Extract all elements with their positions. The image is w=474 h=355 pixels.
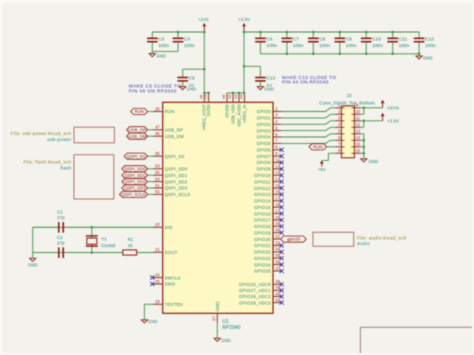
svg-text:GPIO5: GPIO5 — [257, 141, 272, 146]
svg-text:100n: 100n — [346, 43, 357, 49]
svg-text:QSPI_SD3: QSPI_SD3 — [165, 186, 188, 191]
svg-text:100n: 100n — [319, 43, 330, 49]
svg-text:GPIO1: GPIO1 — [257, 116, 272, 121]
svg-text:C1: C1 — [57, 210, 63, 215]
svg-text:SWD: SWD — [165, 282, 176, 287]
svg-text:27p: 27p — [57, 240, 65, 245]
svg-text:QSPI_SD2: QSPI_SD2 — [165, 179, 188, 184]
svg-text:QSPI_SD2: QSPI_SD2 — [124, 179, 146, 184]
svg-text:audio: audio — [357, 241, 370, 246]
svg-text:15: 15 — [356, 142, 361, 147]
svg-text:27: 27 — [275, 208, 280, 213]
svg-text:GND: GND — [264, 86, 274, 91]
svg-text:Y1: Y1 — [101, 236, 107, 241]
svg-text:GPIO2: GPIO2 — [257, 122, 272, 127]
svg-text:USB_VDD: USB_VDD — [230, 104, 235, 124]
svg-text:GND: GND — [156, 53, 166, 58]
svg-text:28: 28 — [275, 215, 280, 220]
svg-text:53: 53 — [155, 164, 160, 169]
svg-text:17: 17 — [275, 196, 280, 201]
svg-text:GPIO19: GPIO19 — [254, 230, 271, 235]
svg-text:13: 13 — [275, 170, 280, 175]
svg-text:GND: GND — [221, 338, 231, 343]
svg-text:21: 21 — [155, 247, 160, 252]
svg-text:23: 23 — [203, 94, 208, 99]
svg-text:GPIO27_ADC1: GPIO27_ADC1 — [239, 288, 271, 293]
svg-text:flash: flash — [60, 165, 71, 170]
svg-text:GPIO9: GPIO9 — [257, 167, 272, 172]
svg-text:GPIO8: GPIO8 — [257, 160, 272, 165]
svg-text:RP2040: RP2040 — [222, 325, 240, 331]
svg-text:C13: C13 — [266, 76, 275, 82]
svg-text:44: 44 — [239, 94, 244, 99]
svg-text:54: 54 — [155, 176, 160, 181]
svg-text:47: 47 — [155, 125, 160, 130]
svg-text:RUN: RUN — [165, 109, 175, 114]
svg-text:GPIO18: GPIO18 — [254, 224, 271, 229]
svg-text:GPIO17: GPIO17 — [254, 218, 271, 223]
svg-text:12: 12 — [275, 164, 280, 169]
svg-text:51: 51 — [155, 183, 160, 188]
svg-text:QSPI_SS: QSPI_SS — [127, 154, 146, 159]
svg-text:QSPI_SD1: QSPI_SD1 — [165, 173, 188, 178]
svg-text:File: flash.kicad_sch: File: flash.kicad_sch — [23, 159, 71, 164]
svg-text:36: 36 — [275, 259, 280, 264]
svg-text:C3: C3 — [158, 36, 164, 42]
svg-text:10: 10 — [356, 109, 361, 114]
svg-text:30: 30 — [275, 228, 280, 233]
svg-text:52: 52 — [155, 189, 160, 194]
svg-text:26: 26 — [155, 106, 160, 111]
svg-text:GPIO25: GPIO25 — [254, 269, 271, 274]
svg-text:37: 37 — [275, 266, 280, 271]
svg-text:QSPI_SCLK: QSPI_SCLK — [165, 192, 191, 197]
svg-text:XOUT: XOUT — [165, 250, 178, 255]
svg-text:GPIO21: GPIO21 — [254, 243, 271, 248]
svg-text:49: 49 — [221, 94, 226, 99]
svg-text:GND: GND — [28, 262, 38, 267]
svg-text:GPIO11: GPIO11 — [254, 179, 271, 184]
svg-text:11: 11 — [275, 157, 280, 162]
svg-text:XIN: XIN — [165, 225, 173, 230]
svg-text:QSPI_SD0: QSPI_SD0 — [124, 166, 146, 171]
svg-text:29: 29 — [275, 221, 280, 226]
svg-text:39: 39 — [275, 285, 280, 290]
svg-text:100n: 100n — [399, 43, 410, 49]
svg-text:55: 55 — [155, 170, 160, 175]
svg-text:GPIO3: GPIO3 — [257, 128, 272, 133]
svg-text:RUN: RUN — [313, 144, 322, 149]
svg-text:100n: 100n — [372, 43, 383, 49]
svg-text:16: 16 — [356, 148, 361, 153]
svg-text:18: 18 — [275, 202, 280, 207]
svg-text:VREG_IN: VREG_IN — [242, 104, 247, 122]
svg-text:12: 12 — [356, 122, 361, 127]
svg-text:TESTEN: TESTEN — [165, 302, 183, 307]
svg-text:19: 19 — [155, 299, 160, 304]
svg-text:27p: 27p — [57, 215, 65, 220]
svg-text:GPIO13: GPIO13 — [254, 192, 271, 197]
svg-text:GND: GND — [187, 86, 197, 91]
svg-text:GND: GND — [148, 319, 158, 324]
svg-text:100n: 100n — [158, 43, 169, 49]
svg-text:34: 34 — [275, 247, 280, 252]
svg-text:C2: C2 — [57, 235, 63, 240]
svg-text:41: 41 — [275, 297, 280, 302]
svg-text:GPIO29_ADC3: GPIO29_ADC3 — [239, 300, 271, 305]
svg-text:QSPI_SS: QSPI_SS — [165, 154, 185, 159]
svg-text:C5: C5 — [189, 76, 195, 82]
svg-text:+1V1: +1V1 — [198, 17, 209, 22]
svg-text:GND: GND — [369, 159, 379, 164]
svg-text:GPIO6: GPIO6 — [257, 148, 272, 153]
svg-text:USB_DP: USB_DP — [129, 127, 146, 132]
svg-text:RUN: RUN — [135, 109, 144, 114]
svg-text:C12: C12 — [425, 36, 434, 42]
svg-text:QSPI_SCLK: QSPI_SCLK — [122, 192, 146, 197]
svg-text:56: 56 — [155, 151, 160, 156]
svg-text:15: 15 — [275, 183, 280, 188]
svg-text:USB_DM: USB_DM — [128, 134, 146, 139]
svg-text:57: 57 — [212, 316, 217, 321]
svg-text:QSPI_SD0: QSPI_SD0 — [165, 167, 188, 172]
svg-text:PIN 45 ON RP2040: PIN 45 ON RP2040 — [129, 89, 177, 95]
svg-text:14: 14 — [275, 177, 280, 182]
svg-text:GPIO14: GPIO14 — [254, 199, 271, 204]
svg-text:+3.3V: +3.3V — [238, 17, 250, 22]
svg-text:usb-power: usb-power — [47, 137, 71, 142]
svg-text:38: 38 — [275, 279, 280, 284]
svg-text:GPIO7: GPIO7 — [257, 154, 272, 159]
svg-text:GPIO12: GPIO12 — [254, 186, 271, 191]
svg-text:J2: J2 — [347, 93, 352, 99]
svg-text:GPIO15: GPIO15 — [254, 205, 271, 210]
svg-text:11: 11 — [356, 116, 361, 121]
svg-text:GND: GND — [423, 56, 433, 61]
svg-text:GPIO24: GPIO24 — [254, 262, 271, 267]
svg-text:100n: 100n — [184, 43, 195, 49]
svg-text:ADC_AVDD: ADC_AVDD — [236, 104, 241, 127]
svg-text:C7: C7 — [293, 36, 299, 42]
svg-text:14: 14 — [356, 135, 361, 140]
svg-text:GPIO28_ADC2: GPIO28_ADC2 — [239, 294, 271, 299]
svg-text:GPIO4: GPIO4 — [257, 135, 272, 140]
svg-text:24: 24 — [155, 272, 160, 277]
svg-text:46: 46 — [155, 131, 160, 136]
svg-text:File: usb-power.kicad_sch: File: usb-power.kicad_sch — [11, 131, 72, 136]
svg-text:VSYS: VSYS — [387, 105, 399, 110]
svg-text:R1: R1 — [128, 237, 134, 242]
svg-text:GPIO23: GPIO23 — [254, 256, 271, 261]
svg-text:100n: 100n — [425, 43, 436, 49]
svg-text:C8: C8 — [319, 36, 325, 42]
svg-text:13: 13 — [356, 129, 361, 134]
svg-text:GPIO0: GPIO0 — [257, 109, 272, 114]
svg-text:31: 31 — [275, 234, 280, 239]
svg-text:QSPI_SD1: QSPI_SD1 — [124, 173, 146, 178]
svg-text:33: 33 — [233, 94, 238, 99]
svg-text:GND: GND — [215, 301, 220, 312]
svg-text:Crystal: Crystal — [101, 243, 115, 248]
svg-text:PIN 44 ON RP2040: PIN 44 ON RP2040 — [282, 80, 329, 86]
svg-text:GPIO26_ADC0: GPIO26_ADC0 — [239, 282, 271, 287]
svg-text:16: 16 — [275, 189, 280, 194]
svg-text:USB_DM: USB_DM — [165, 134, 184, 139]
svg-text:GPIO10: GPIO10 — [254, 173, 271, 178]
svg-text:DVDD: DVDD — [206, 104, 211, 116]
svg-text:+3.3V: +3.3V — [387, 118, 399, 123]
svg-text:20: 20 — [155, 222, 160, 227]
svg-text:40: 40 — [275, 291, 280, 296]
svg-text:C10: C10 — [372, 36, 381, 42]
svg-text:QSPI_SD3: QSPI_SD3 — [124, 186, 146, 191]
svg-text:gpio20: gpio20 — [287, 237, 301, 242]
svg-text:IOVDD: IOVDD — [224, 104, 229, 117]
svg-text:USB_DP: USB_DP — [165, 128, 184, 133]
svg-text:100n: 100n — [293, 43, 304, 49]
svg-text:43: 43 — [227, 94, 232, 99]
svg-text:1k: 1k — [128, 243, 134, 248]
svg-text:GPIO22: GPIO22 — [254, 250, 271, 255]
svg-text:C4: C4 — [184, 36, 190, 42]
svg-text:32: 32 — [275, 240, 280, 245]
svg-text:GPIO16: GPIO16 — [254, 211, 271, 216]
svg-text:+9V: +9V — [318, 167, 326, 172]
svg-text:25: 25 — [155, 279, 160, 284]
svg-text:SWCLK: SWCLK — [165, 275, 181, 280]
svg-text:100n: 100n — [266, 43, 277, 49]
svg-text:35: 35 — [275, 253, 280, 258]
svg-text:GPIO20: GPIO20 — [254, 237, 271, 242]
svg-text:C6: C6 — [266, 36, 272, 42]
svg-text:C9: C9 — [346, 36, 352, 42]
svg-text:C11: C11 — [399, 36, 408, 42]
